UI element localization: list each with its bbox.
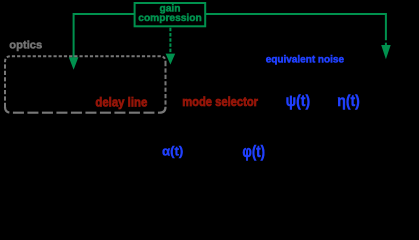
svg-text:optics: optics — [9, 40, 42, 52]
svg-text:ψ(t): ψ(t) — [286, 92, 311, 110]
svg-text:φ(t): φ(t) — [242, 142, 265, 161]
optics dashed box: top edge — [5, 56, 166, 62]
optics dashed box: left edge — [4, 62, 6, 107]
wire: left feedback (box left edge to optics box) — [74, 14, 135, 57]
wire: middle dashed drop from box bottom — [169, 28, 171, 54]
block: gain compression box — [135, 3, 206, 26]
optics dashed box: bottom edge — [5, 107, 166, 113]
arrowhead middle — [166, 54, 176, 65]
arrowhead left — [69, 57, 79, 70]
svg-text:η(t): η(t) — [337, 92, 360, 110]
svg-text:mode selector: mode selector — [182, 94, 258, 109]
optics dashed box: right edge — [165, 62, 167, 107]
arrowhead right — [381, 45, 391, 59]
svg-text:α(t): α(t) — [162, 143, 183, 158]
wire: right vertical dash segment — [385, 43, 387, 46]
svg-text:compression: compression — [138, 13, 201, 24]
svg-text:delay line: delay line — [95, 95, 147, 110]
wire: right feedback (box right edge to far right, down) — [205, 14, 386, 40]
svg-text:equivalent noise: equivalent noise — [266, 54, 345, 65]
